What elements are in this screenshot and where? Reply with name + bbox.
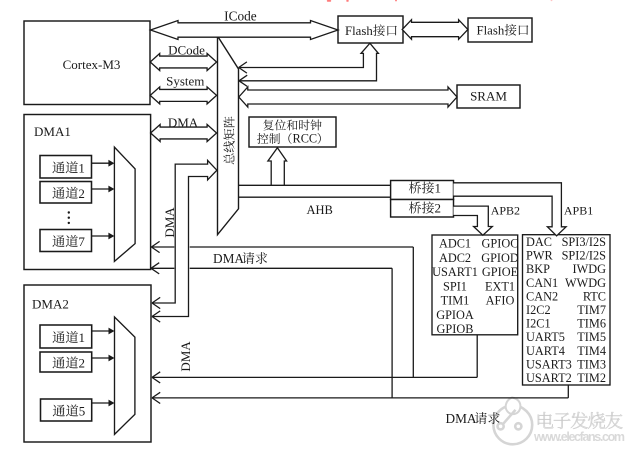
svg-text:AFIO: AFIO — [486, 294, 515, 308]
svg-text:System: System — [166, 74, 204, 89]
svg-text:IWDG: IWDG — [573, 262, 607, 276]
svg-text:USART1: USART1 — [432, 265, 478, 279]
svg-text:2: 2 — [79, 356, 86, 371]
svg-text:SRAM: SRAM — [470, 89, 507, 104]
svg-text:DMA2: DMA2 — [32, 297, 69, 312]
svg-text:SPI2/I2S: SPI2/I2S — [562, 249, 607, 263]
svg-text:BKP: BKP — [526, 262, 550, 276]
svg-text:1: 1 — [435, 181, 442, 196]
svg-text:DMA: DMA — [213, 251, 244, 266]
svg-text:ADC2: ADC2 — [439, 251, 471, 265]
svg-text:RCC: RCC — [293, 132, 318, 146]
svg-text:GPIOE: GPIOE — [482, 265, 518, 279]
svg-text:I2C2: I2C2 — [526, 303, 551, 317]
svg-text:TIM3: TIM3 — [577, 357, 606, 371]
svg-text:Flash: Flash — [345, 24, 373, 38]
svg-text:TIM7: TIM7 — [577, 303, 606, 317]
svg-text:APB1: APB1 — [564, 204, 593, 218]
svg-text:TIM1: TIM1 — [441, 294, 470, 308]
svg-text:AHB: AHB — [307, 203, 333, 217]
svg-text:RTC: RTC — [583, 289, 606, 303]
svg-text:DMA: DMA — [168, 115, 199, 130]
svg-text:USART2: USART2 — [526, 371, 572, 385]
svg-text:APB2: APB2 — [491, 204, 520, 218]
svg-text:UART4: UART4 — [526, 344, 565, 358]
svg-text:PWR: PWR — [526, 249, 553, 263]
svg-text:GPIOB: GPIOB — [437, 322, 474, 336]
svg-text:UART5: UART5 — [526, 330, 565, 344]
svg-text:Flash: Flash — [477, 24, 505, 38]
svg-text:TIM4: TIM4 — [577, 344, 606, 358]
svg-text:2: 2 — [78, 186, 85, 201]
svg-text:GPIOA: GPIOA — [436, 308, 474, 322]
svg-text:DMA: DMA — [446, 411, 477, 426]
svg-text:1: 1 — [78, 160, 85, 175]
svg-text:TIM5: TIM5 — [577, 330, 606, 344]
svg-text:CAN2: CAN2 — [526, 289, 558, 303]
svg-text:EXT1: EXT1 — [485, 279, 515, 293]
svg-text:ADC1: ADC1 — [439, 237, 471, 251]
svg-text:TIM6: TIM6 — [577, 317, 606, 331]
svg-text:DAC: DAC — [526, 235, 552, 249]
svg-text:I2C1: I2C1 — [526, 317, 551, 331]
svg-text:TIM2: TIM2 — [577, 371, 606, 385]
svg-text:WWDG: WWDG — [565, 276, 606, 290]
svg-text:DMA1: DMA1 — [34, 124, 71, 139]
svg-text:SPI3/I2S: SPI3/I2S — [562, 235, 607, 249]
svg-text:CAN1: CAN1 — [526, 276, 558, 290]
svg-text:USART3: USART3 — [526, 357, 572, 371]
svg-text:SPI1: SPI1 — [443, 279, 467, 293]
svg-text:GPIOD: GPIOD — [481, 251, 519, 265]
svg-text:Cortex-M3: Cortex-M3 — [63, 57, 121, 72]
svg-text:7: 7 — [78, 234, 85, 249]
svg-text:DMA: DMA — [178, 341, 193, 372]
svg-text:www.elecfans.com: www.elecfans.com — [533, 430, 625, 444]
svg-text:ICode: ICode — [224, 9, 257, 24]
svg-text:1: 1 — [79, 330, 86, 345]
svg-text:DCode: DCode — [168, 43, 205, 58]
svg-text:GPIOC: GPIOC — [482, 237, 519, 251]
svg-text:5: 5 — [79, 404, 86, 419]
svg-text:2: 2 — [435, 201, 442, 216]
svg-text:DMA: DMA — [162, 207, 177, 238]
